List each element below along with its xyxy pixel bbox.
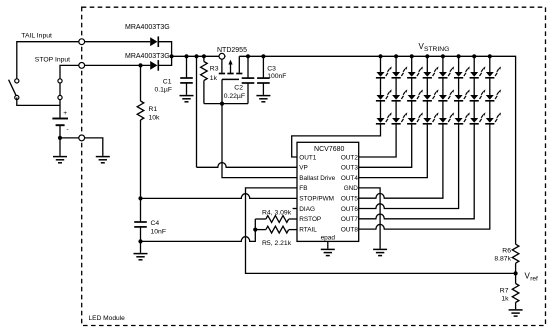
svg-text:OUT3: OUT3	[341, 165, 358, 172]
wire: switch commons to battery	[17, 98, 60, 118]
ground (epad)	[321, 249, 335, 255]
connector: TAIL terminal	[79, 39, 85, 45]
resistor R6 8.87k	[494, 244, 519, 273]
switch S2 (STOP, closed)	[58, 79, 62, 100]
switch S1 (TAIL, open)	[9, 79, 19, 100]
svg-text:OUT6: OUT6	[341, 206, 358, 213]
ground (C3)	[256, 96, 270, 102]
svg-text:OUT4: OUT4	[341, 175, 358, 182]
capacitor C3 100nF	[257, 56, 286, 95]
capacitor C2 0.22uF	[224, 56, 255, 103]
svg-text:ref: ref	[530, 275, 538, 282]
LED string column 5	[438, 54, 454, 124]
junction: gate node	[220, 102, 224, 106]
wire: supply rail (right of Q1) to R6	[239, 56, 515, 244]
svg-text:0.22µF: 0.22µF	[224, 93, 245, 100]
resistor R3 1k	[201, 56, 219, 103]
resistor R5 2.21k	[255, 226, 297, 247]
wire: VP riser from rail	[196, 56, 198, 167]
junction: R3 rail	[202, 54, 206, 58]
LED string column 8	[485, 54, 501, 124]
svg-text:STRING: STRING	[424, 46, 449, 53]
svg-text:0.1µF: 0.1µF	[154, 87, 172, 94]
wire: OUT3 route to LED column 3	[359, 124, 412, 168]
LED string column 3	[407, 54, 423, 124]
svg-text:10nF: 10nF	[151, 228, 167, 235]
wire: VP to IC (hop over gate line)	[197, 163, 298, 168]
wire: battery negative to ground and module return	[60, 125, 103, 156]
connector: ground return terminal	[79, 135, 85, 141]
svg-text:RTAIL: RTAIL	[299, 226, 317, 233]
node Vref	[514, 271, 518, 275]
svg-text:1k: 1k	[501, 295, 509, 302]
svg-text:NCV7680: NCV7680	[314, 146, 344, 153]
junction: STOP/PWM - R1 - C4 node	[138, 196, 142, 200]
svg-text:GND: GND	[344, 185, 359, 192]
wire: supply rail (left of Q1)	[172, 55, 226, 57]
diode D1 MRA4003T3G (TAIL)	[125, 24, 170, 47]
svg-text:R1: R1	[149, 106, 158, 113]
wire: OUT8 route to LED column 8 (hop over GND line)	[359, 124, 490, 229]
junction: R4/R5 common node	[253, 228, 257, 232]
junction: C4 bottom / RTAIL return node	[138, 239, 142, 243]
svg-text:+: +	[63, 110, 67, 117]
svg-text:OUT1: OUT1	[299, 154, 316, 161]
transistor Q1 NTD2955 (PMOS)	[217, 47, 247, 79]
capacitor C1 0.1uF	[154, 56, 192, 95]
svg-text:C4: C4	[151, 220, 160, 227]
connector: STOP terminal	[79, 63, 85, 69]
wire: diode outputs join to supply rail	[158, 42, 171, 66]
svg-text:OUT5: OUT5	[341, 196, 358, 203]
wire: FB pin to Vref node	[246, 188, 516, 274]
svg-text:R6: R6	[502, 247, 511, 254]
svg-text:VP: VP	[299, 165, 308, 172]
ground (GND pin)	[373, 249, 387, 255]
dashed border: LED Module boundary	[82, 7, 546, 325]
junction: battery negative node	[58, 136, 62, 140]
wire: resistor-return line to C4 ground node (hop over FB line)	[141, 219, 256, 241]
junction: rail tap on diode join	[170, 54, 174, 58]
capacitor C4 10nF	[134, 198, 166, 253]
svg-text:OUT7: OUT7	[341, 216, 358, 223]
wire: OUT5 route to LED column 5 (hop over GND line)	[359, 124, 443, 198]
LED string column 4	[423, 54, 439, 124]
svg-text:C1: C1	[163, 78, 172, 85]
svg-text:10k: 10k	[149, 114, 161, 121]
junction: VP rail	[194, 54, 198, 58]
pin stub: DIAG (unconnected)	[293, 208, 297, 210]
svg-text:FB: FB	[299, 185, 307, 192]
junction: C1 rail	[184, 54, 188, 58]
LED string column 7	[470, 54, 486, 124]
wire: STOP input line	[60, 65, 150, 81]
svg-text:MRA4003T3G: MRA4003T3G	[125, 24, 170, 31]
junction: C2 rail	[246, 54, 250, 58]
ground (C4)	[134, 254, 148, 260]
svg-text:8.87k: 8.87k	[494, 255, 511, 262]
svg-text:-: -	[67, 126, 69, 133]
wire: OUT6 route to LED column 6 (hop over GND line)	[359, 124, 459, 209]
svg-text:TAIL Input: TAIL Input	[21, 33, 52, 40]
wire: OUT1 route to LED column 1	[292, 124, 381, 157]
ground (battery)	[53, 157, 67, 163]
svg-text:OUT8: OUT8	[341, 226, 358, 233]
wire: TAIL input line	[17, 42, 150, 81]
IC U1 NCV7680	[297, 142, 359, 241]
svg-text:STOP Input: STOP Input	[35, 56, 70, 63]
wire: epad to ground	[327, 241, 329, 248]
wire: R3/C2 bottom node	[204, 103, 248, 105]
battery B1	[52, 110, 68, 133]
svg-text:STOP/PWM: STOP/PWM	[299, 196, 334, 203]
junction: R1 tap on STOP line	[138, 63, 142, 67]
wire: OUT7 route to LED column 7 (hop over GND line)	[359, 124, 475, 219]
label: Vref	[525, 271, 538, 282]
svg-text:C2: C2	[234, 85, 243, 92]
svg-text:DIAG: DIAG	[299, 206, 315, 213]
svg-text:100nF: 100nF	[267, 73, 286, 80]
svg-text:MRA4003T3G: MRA4003T3G	[125, 53, 170, 60]
svg-text:R7: R7	[500, 288, 509, 295]
junction: C3 rail	[261, 54, 265, 58]
wire: STOP/PWM line from R1/C4 node to pin (hop over FB line)	[141, 194, 298, 199]
svg-text:R5, 2.21k: R5, 2.21k	[262, 240, 292, 247]
wire: GND pin to ground	[359, 188, 380, 249]
ground (C1)	[180, 96, 194, 102]
LED string column 2	[392, 54, 408, 124]
ground (module return)	[96, 157, 110, 163]
svg-text:1k: 1k	[210, 75, 218, 82]
wire: OUT4 route to LED column 4	[359, 124, 428, 178]
ground (R7)	[509, 310, 523, 316]
resistor R7 1k	[500, 273, 519, 309]
svg-text:RSTOP: RSTOP	[299, 216, 321, 223]
label: VSTRING net	[419, 42, 450, 53]
resistor R1 10k	[137, 65, 160, 198]
resistor R4 3.09k	[255, 210, 297, 223]
diode D2 MRA4003T3G (STOP)	[125, 53, 170, 71]
svg-text:epad: epad	[321, 234, 336, 241]
svg-text:LED Module: LED Module	[89, 315, 126, 322]
wire: Q1 gate to R3/C2 node and Ballast Drive pin	[222, 79, 297, 177]
svg-text:OUT2: OUT2	[341, 154, 358, 161]
svg-text:C3: C3	[267, 65, 276, 72]
wire: OUT2 route to LED column 2	[359, 124, 396, 157]
LED string column 6	[454, 54, 470, 124]
svg-text:Ballast Drive: Ballast Drive	[299, 175, 335, 182]
LED string column 1	[376, 54, 392, 124]
svg-text:R4, 3.09k: R4, 3.09k	[262, 210, 292, 217]
svg-text:R3: R3	[210, 66, 219, 73]
